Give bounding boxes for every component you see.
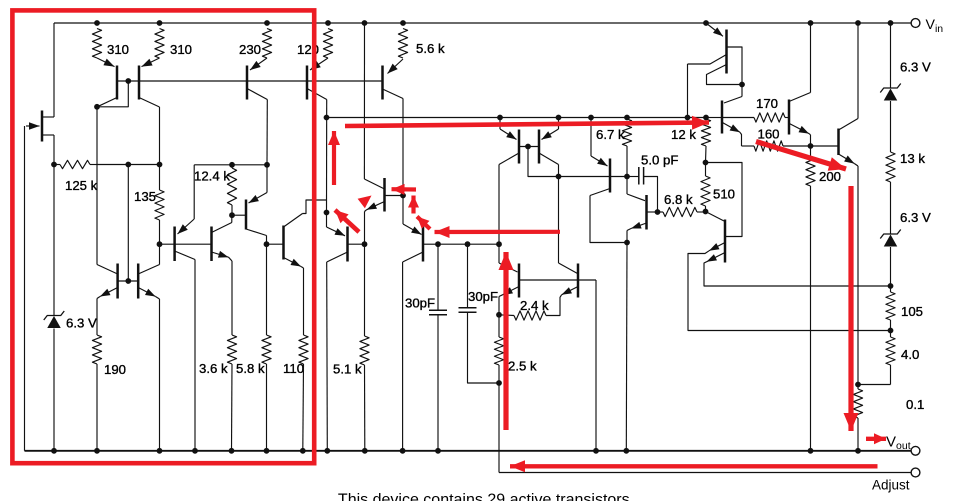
label 120 [297, 42, 319, 57]
svg-text:510: 510 [713, 187, 735, 202]
junction 135 bottom [157, 241, 163, 247]
red arrow diag 160 [756, 142, 846, 171]
transistor Q4 [307, 58, 328, 100]
wire Q9 base [232, 214, 246, 216]
svg-text:6.3 V: 6.3 V [900, 210, 931, 225]
red arrow long left mid [435, 226, 561, 238]
wire Q6 emitter down [96, 299, 98, 336]
junction top rail x810.5 [808, 20, 814, 26]
wire Vin top rail [54, 22, 911, 24]
svg-text:310: 310 [107, 42, 129, 57]
capacitor C3 5.0pF [627, 167, 658, 212]
junction top rail x403 [400, 20, 406, 26]
resistor 110 [299, 335, 308, 364]
resistor 120 [323, 29, 332, 59]
resistor 4.0 [886, 331, 895, 385]
capacitor C1 30pF [429, 244, 447, 451]
junction 125k left [51, 162, 57, 168]
zener D2 6.3V [880, 84, 901, 101]
wire Q12 emitter down [364, 212, 366, 245]
red arrow small diag [417, 217, 430, 230]
transistor Q2 [139, 58, 160, 107]
resistor 6.8k [658, 207, 706, 216]
wire Q11 collector to rail [326, 262, 329, 451]
wire Q3 collector down [266, 100, 268, 165]
label 135 [134, 189, 156, 204]
wire Q20 emitter1 [688, 251, 891, 331]
wire Q20 emitter2 [704, 262, 891, 286]
label Adjust [872, 478, 910, 493]
label 5.1 k [333, 362, 362, 377]
svg-text:5.0 pF: 5.0 pF [641, 153, 678, 168]
wire Q4 collector down [326, 100, 328, 213]
junction Q21/Q22 [739, 82, 745, 88]
red arrow long up [499, 252, 514, 430]
junction 2.4k left [496, 312, 502, 318]
junction cap2 top [465, 241, 471, 247]
capacitor C2 30pF [459, 244, 500, 383]
wire 117 bus [327, 117, 707, 119]
transistor Q3 [247, 58, 267, 100]
wire 5.8k to rail [266, 364, 268, 451]
svg-text:12.4 k: 12.4 k [194, 169, 230, 184]
wire Q9 emitter drop [266, 165, 268, 193]
svg-text:6.3 V: 6.3 V [66, 316, 97, 331]
transistor Q13 [403, 196, 423, 263]
resistor R125k [54, 160, 97, 168]
wire 160 to Q24 base [811, 145, 839, 147]
junction top rail x97 [94, 20, 100, 26]
label 2.5 k [508, 359, 537, 374]
junction 105 bottom [888, 328, 894, 334]
svg-text:6.7 k: 6.7 k [596, 127, 625, 142]
resistor 12.4k [227, 165, 236, 215]
wire Q10 base [267, 243, 284, 245]
junction cross base [125, 278, 131, 284]
wire to adjust [498, 383, 500, 473]
wire Adjust line [499, 472, 911, 474]
label C2 30pF [468, 289, 498, 304]
label Vin [926, 17, 944, 35]
wire Q14Q15 base [519, 146, 539, 148]
svg-text:6.8 k: 6.8 k [664, 192, 693, 207]
label 5.8 k [236, 361, 265, 376]
svg-text:110: 110 [283, 361, 304, 376]
junction bottom rail x858 [855, 448, 861, 454]
label 510 [713, 187, 735, 202]
wire JFET gate [26, 122, 40, 130]
wire Q24 emitter down [857, 166, 859, 385]
svg-text:5.8 k: 5.8 k [236, 361, 265, 376]
label 160 [758, 127, 780, 142]
label 310 right [170, 42, 192, 57]
wire Q1 collector column [96, 107, 98, 265]
resistor 200 [806, 146, 815, 451]
junction 12.4k top [229, 162, 235, 168]
wire Q5 collector down [402, 99, 404, 196]
svg-text:135: 135 [134, 189, 156, 204]
resistor 3.6k [227, 335, 236, 364]
red arrow long left bottom [510, 460, 878, 472]
resistor 230 [262, 29, 271, 59]
junction 244/coll node [496, 241, 502, 247]
wire 13k to zener3 [890, 182, 892, 235]
resistor 310 left [92, 29, 101, 59]
wire Q19 emitter down [626, 231, 628, 243]
resistor 13k [886, 152, 895, 182]
wire Q12 base [385, 195, 403, 197]
junction top rail x267 [264, 20, 270, 26]
resistor 5.6k [398, 29, 407, 59]
wire Q23 collector up [810, 23, 812, 93]
transistor Q11 [327, 213, 348, 263]
resistor 2.4k [499, 295, 562, 320]
junction Q9 emitter top [264, 162, 270, 168]
svg-text:310: 310 [170, 42, 192, 57]
wire Q8 base [160, 243, 212, 245]
wire Q14 collector down [498, 165, 500, 245]
wire 244 bus [438, 243, 499, 245]
wire Q10 collector route [303, 200, 327, 214]
svg-text:Adjust: Adjust [872, 478, 910, 493]
svg-text:170: 170 [756, 96, 778, 111]
wire JFET source down [53, 135, 55, 165]
wire Q21 to Q22 [724, 85, 742, 104]
wire JFET drain to rail [53, 23, 55, 117]
junction 5pF left [624, 174, 630, 180]
junction bottom rail x327.3 [324, 448, 330, 454]
red arrow long down [844, 186, 859, 431]
wire Q13 base [423, 243, 438, 245]
junction Q15 emitter [556, 115, 562, 121]
junction Q1 base tie [125, 78, 131, 84]
label D3 6.3 V [900, 210, 931, 225]
junction top rail x706 [703, 20, 709, 26]
transistor Q10 [284, 214, 303, 267]
label 310 left [107, 42, 129, 57]
wire Q2 collector down [159, 107, 161, 165]
wire base tie [97, 81, 128, 107]
resistor 190 [92, 335, 101, 364]
junction bottom rail x54 [51, 448, 57, 454]
wire Q13 collector to rail [402, 262, 404, 451]
transistor Q8b [212, 215, 233, 261]
junction 6.8k left [655, 209, 661, 215]
svg-text:2.5 k: 2.5 k [508, 359, 537, 374]
wire 4.0 to emitter node [858, 384, 891, 386]
transistor Q8 [175, 219, 195, 261]
wire rail to zener2 [890, 23, 892, 89]
svg-text:190: 190 [104, 362, 126, 377]
wire 5.1k to rail [364, 365, 366, 451]
terminal Adjust [911, 468, 920, 477]
wire cross base drop [127, 165, 129, 282]
label 125 k [65, 178, 98, 193]
zener D3 6.3V [880, 230, 901, 247]
junction 160/200 node [808, 143, 814, 149]
junction Q14 emitter [497, 115, 503, 121]
wire 110 to rail [302, 364, 305, 451]
junction Q15 diode node [556, 174, 562, 180]
junction Q21 collector bus [685, 115, 691, 121]
junction top rail x364.5 [362, 20, 368, 26]
resistor 510 [701, 163, 710, 212]
wire zener2 to 13k [890, 101, 892, 152]
transistor Q15 [539, 118, 559, 165]
red arrow to Vout [866, 433, 886, 444]
red arrow diag up-left [335, 210, 359, 232]
transistor Q1 [97, 58, 117, 107]
junction 2.5k bottom [496, 380, 502, 386]
red arrow small left [392, 184, 417, 195]
transistor Q17 [559, 177, 579, 298]
transistor Q23 [789, 93, 811, 135]
label 5.6 k [416, 41, 445, 56]
wire 165 bus [97, 164, 160, 166]
junction 510 top [703, 160, 709, 166]
junction bottom rail x402.6 [400, 448, 406, 454]
junction top rail x858 [855, 20, 861, 26]
label 13 k [900, 151, 925, 166]
wire node to 5.1k [364, 244, 366, 336]
resistor 0.1 [853, 385, 862, 451]
label C1 30pF [405, 296, 435, 311]
wire Q10 emitter down [301, 267, 304, 336]
junction Q12 base node [400, 193, 406, 199]
wire 190 to rail [96, 364, 98, 451]
transistor Q6 [97, 264, 118, 299]
label 190 [104, 362, 126, 377]
svg-text:3.6 k: 3.6 k [199, 361, 228, 376]
label 105 [901, 304, 923, 319]
wire Q18 collector loop [590, 196, 627, 243]
resistor 5.1k [360, 336, 369, 365]
wire Q16 emitter down [498, 297, 500, 315]
red arrow up left [328, 131, 340, 185]
wire Q8 emitter up [193, 165, 195, 219]
wire Q15 collector down [558, 165, 560, 177]
svg-text:125 k: 125 k [65, 178, 98, 193]
svg-text:5.6 k: 5.6 k [416, 41, 445, 56]
junction bottom rail x266.5 [264, 448, 270, 454]
junction bottom rail x159.5 [157, 448, 163, 454]
label 12 k [671, 127, 696, 142]
wire 3.6k to rail [231, 364, 234, 451]
svg-text:200: 200 [819, 169, 841, 184]
junction 0.1 top [855, 382, 861, 388]
red wedge [358, 196, 372, 209]
label 6.7 k [596, 127, 625, 142]
junction bottom rail x626.3 [623, 448, 629, 454]
junction 135 top [157, 162, 163, 168]
junction cap1 top [435, 241, 441, 247]
transistor Q7 [138, 244, 159, 299]
wire Q11 base [348, 243, 365, 245]
junction bottom rail x231.5 [229, 448, 235, 454]
svg-text:30pF: 30pF [468, 289, 498, 304]
red arrow small up [408, 196, 419, 214]
label Vout [886, 434, 911, 453]
resistor 310 right [155, 29, 164, 59]
wire rail to Q12 collector [363, 23, 365, 179]
junction bottom rail x302.8 [300, 448, 306, 454]
wire Q9 collector down [266, 236, 268, 245]
junction top rail x890.5 [888, 20, 894, 26]
wire gate to bottom rail [24, 126, 26, 451]
svg-text:30pF: 30pF [405, 296, 435, 311]
junction Q11 base node [362, 241, 368, 247]
svg-text:5.1 k: 5.1 k [333, 362, 362, 377]
resistor 135 [155, 165, 164, 245]
label 12.4 k [194, 169, 230, 184]
junction bottom rail x195 [192, 448, 198, 454]
wire Q18 base [559, 176, 628, 178]
wire base bus [117, 80, 383, 82]
label 0.1 [906, 397, 924, 412]
wire Q7 emitter to rail [159, 299, 161, 451]
label 110 [283, 361, 304, 376]
junction 135 tie [125, 162, 131, 168]
svg-text:105: 105 [901, 304, 923, 319]
wire Q19 base [647, 211, 658, 213]
svg-text:This device contains 29 active: This device contains 29 active transisto… [338, 492, 634, 501]
red highlight box [12, 10, 314, 463]
svg-text:2.4 k: 2.4 k [520, 298, 549, 313]
label 4.0 [901, 347, 919, 362]
transistor Q9 [246, 193, 267, 236]
jfet J1 [42, 111, 54, 142]
wire zener3 down [890, 247, 892, 286]
wire Q8b emitter to 3.6k [231, 261, 233, 335]
resistor 105 [886, 286, 895, 331]
svg-text:13 k: 13 k [900, 151, 925, 166]
junction Q19 emitter node [624, 240, 630, 246]
zener D1 6.3V [44, 311, 65, 328]
junction top rail x328 [325, 20, 331, 26]
wire Q8 collector to rail [194, 260, 196, 451]
label D2 6.3 V [900, 60, 931, 75]
label D1 6.3 V [66, 316, 97, 331]
wire Q21 collector bus drop [687, 64, 689, 118]
transistor Q5 [383, 59, 404, 100]
junction 510 bottom [703, 209, 709, 215]
terminal Vin [911, 19, 920, 28]
terminal Vout [911, 446, 920, 455]
resistor 170 [722, 113, 789, 122]
label 170 [756, 96, 778, 111]
junction bottom rail x596 [593, 448, 599, 454]
junction 105 top [888, 283, 894, 289]
junction Q10 base node [264, 241, 270, 247]
resistor 5.8k [262, 335, 271, 364]
caption [338, 492, 634, 501]
wire base bus 280 [519, 279, 596, 281]
resistor 2.5k [494, 315, 503, 383]
red arrow horizontal to 12k [345, 116, 709, 130]
wire node to 5.8k [266, 244, 268, 335]
wire base to diode tie [528, 147, 559, 177]
svg-text:0.1: 0.1 [906, 397, 924, 412]
junction bottom rail x97 [94, 448, 100, 454]
wire zener to bottom rail [53, 329, 55, 451]
wire source node to zener [53, 165, 55, 317]
junction Q18 emitter [588, 115, 594, 121]
label 3.6 k [199, 361, 228, 376]
junction bottom rail x810.5 [808, 448, 814, 454]
label 6.8 k [664, 192, 693, 207]
junction top rail x159.5 [157, 20, 163, 26]
label 200 [819, 169, 841, 184]
junction bottom rail x364.8 [362, 448, 368, 454]
svg-text:6.3 V: 6.3 V [900, 60, 931, 75]
junction 12.4k bottom [229, 212, 235, 218]
transistor Q19 [627, 177, 647, 231]
junction 12k top [703, 115, 709, 121]
transistor Q18 [590, 118, 610, 196]
resistor 12k [701, 118, 710, 163]
resistor 160 [742, 141, 811, 151]
junction 6.7k top [624, 115, 630, 121]
wire Q23 emitter down [810, 135, 812, 146]
junction pair base [525, 144, 531, 150]
transistor Q24 [839, 119, 859, 167]
svg-text:230: 230 [239, 42, 261, 57]
junction 117 left [324, 115, 330, 121]
transistor Q12 [364, 178, 384, 212]
wire Q24 collector up [857, 23, 859, 119]
transistor Q21 [688, 23, 743, 85]
resistor 6.7k [622, 118, 631, 177]
svg-text:160: 160 [758, 127, 780, 142]
wire node to rail [625, 243, 628, 451]
junction bottom rail x438 [435, 448, 441, 454]
junction Q1 collector [94, 104, 100, 110]
junction mid node [324, 210, 330, 216]
svg-text:4.0: 4.0 [901, 347, 919, 362]
transistor Q22 [706, 101, 742, 147]
wire base cross [118, 280, 139, 282]
label 230 [239, 42, 261, 57]
transistor Q20 [706, 163, 743, 263]
transistor Q16 [499, 244, 519, 297]
wire bottom Vout rail [25, 450, 911, 452]
wire 12.4k bus [194, 164, 267, 166]
transistor Q14 [499, 118, 519, 165]
label 2.4 k [520, 298, 549, 313]
label C3 5.0 pF [641, 153, 678, 168]
wire 280 to rail [595, 280, 597, 451]
